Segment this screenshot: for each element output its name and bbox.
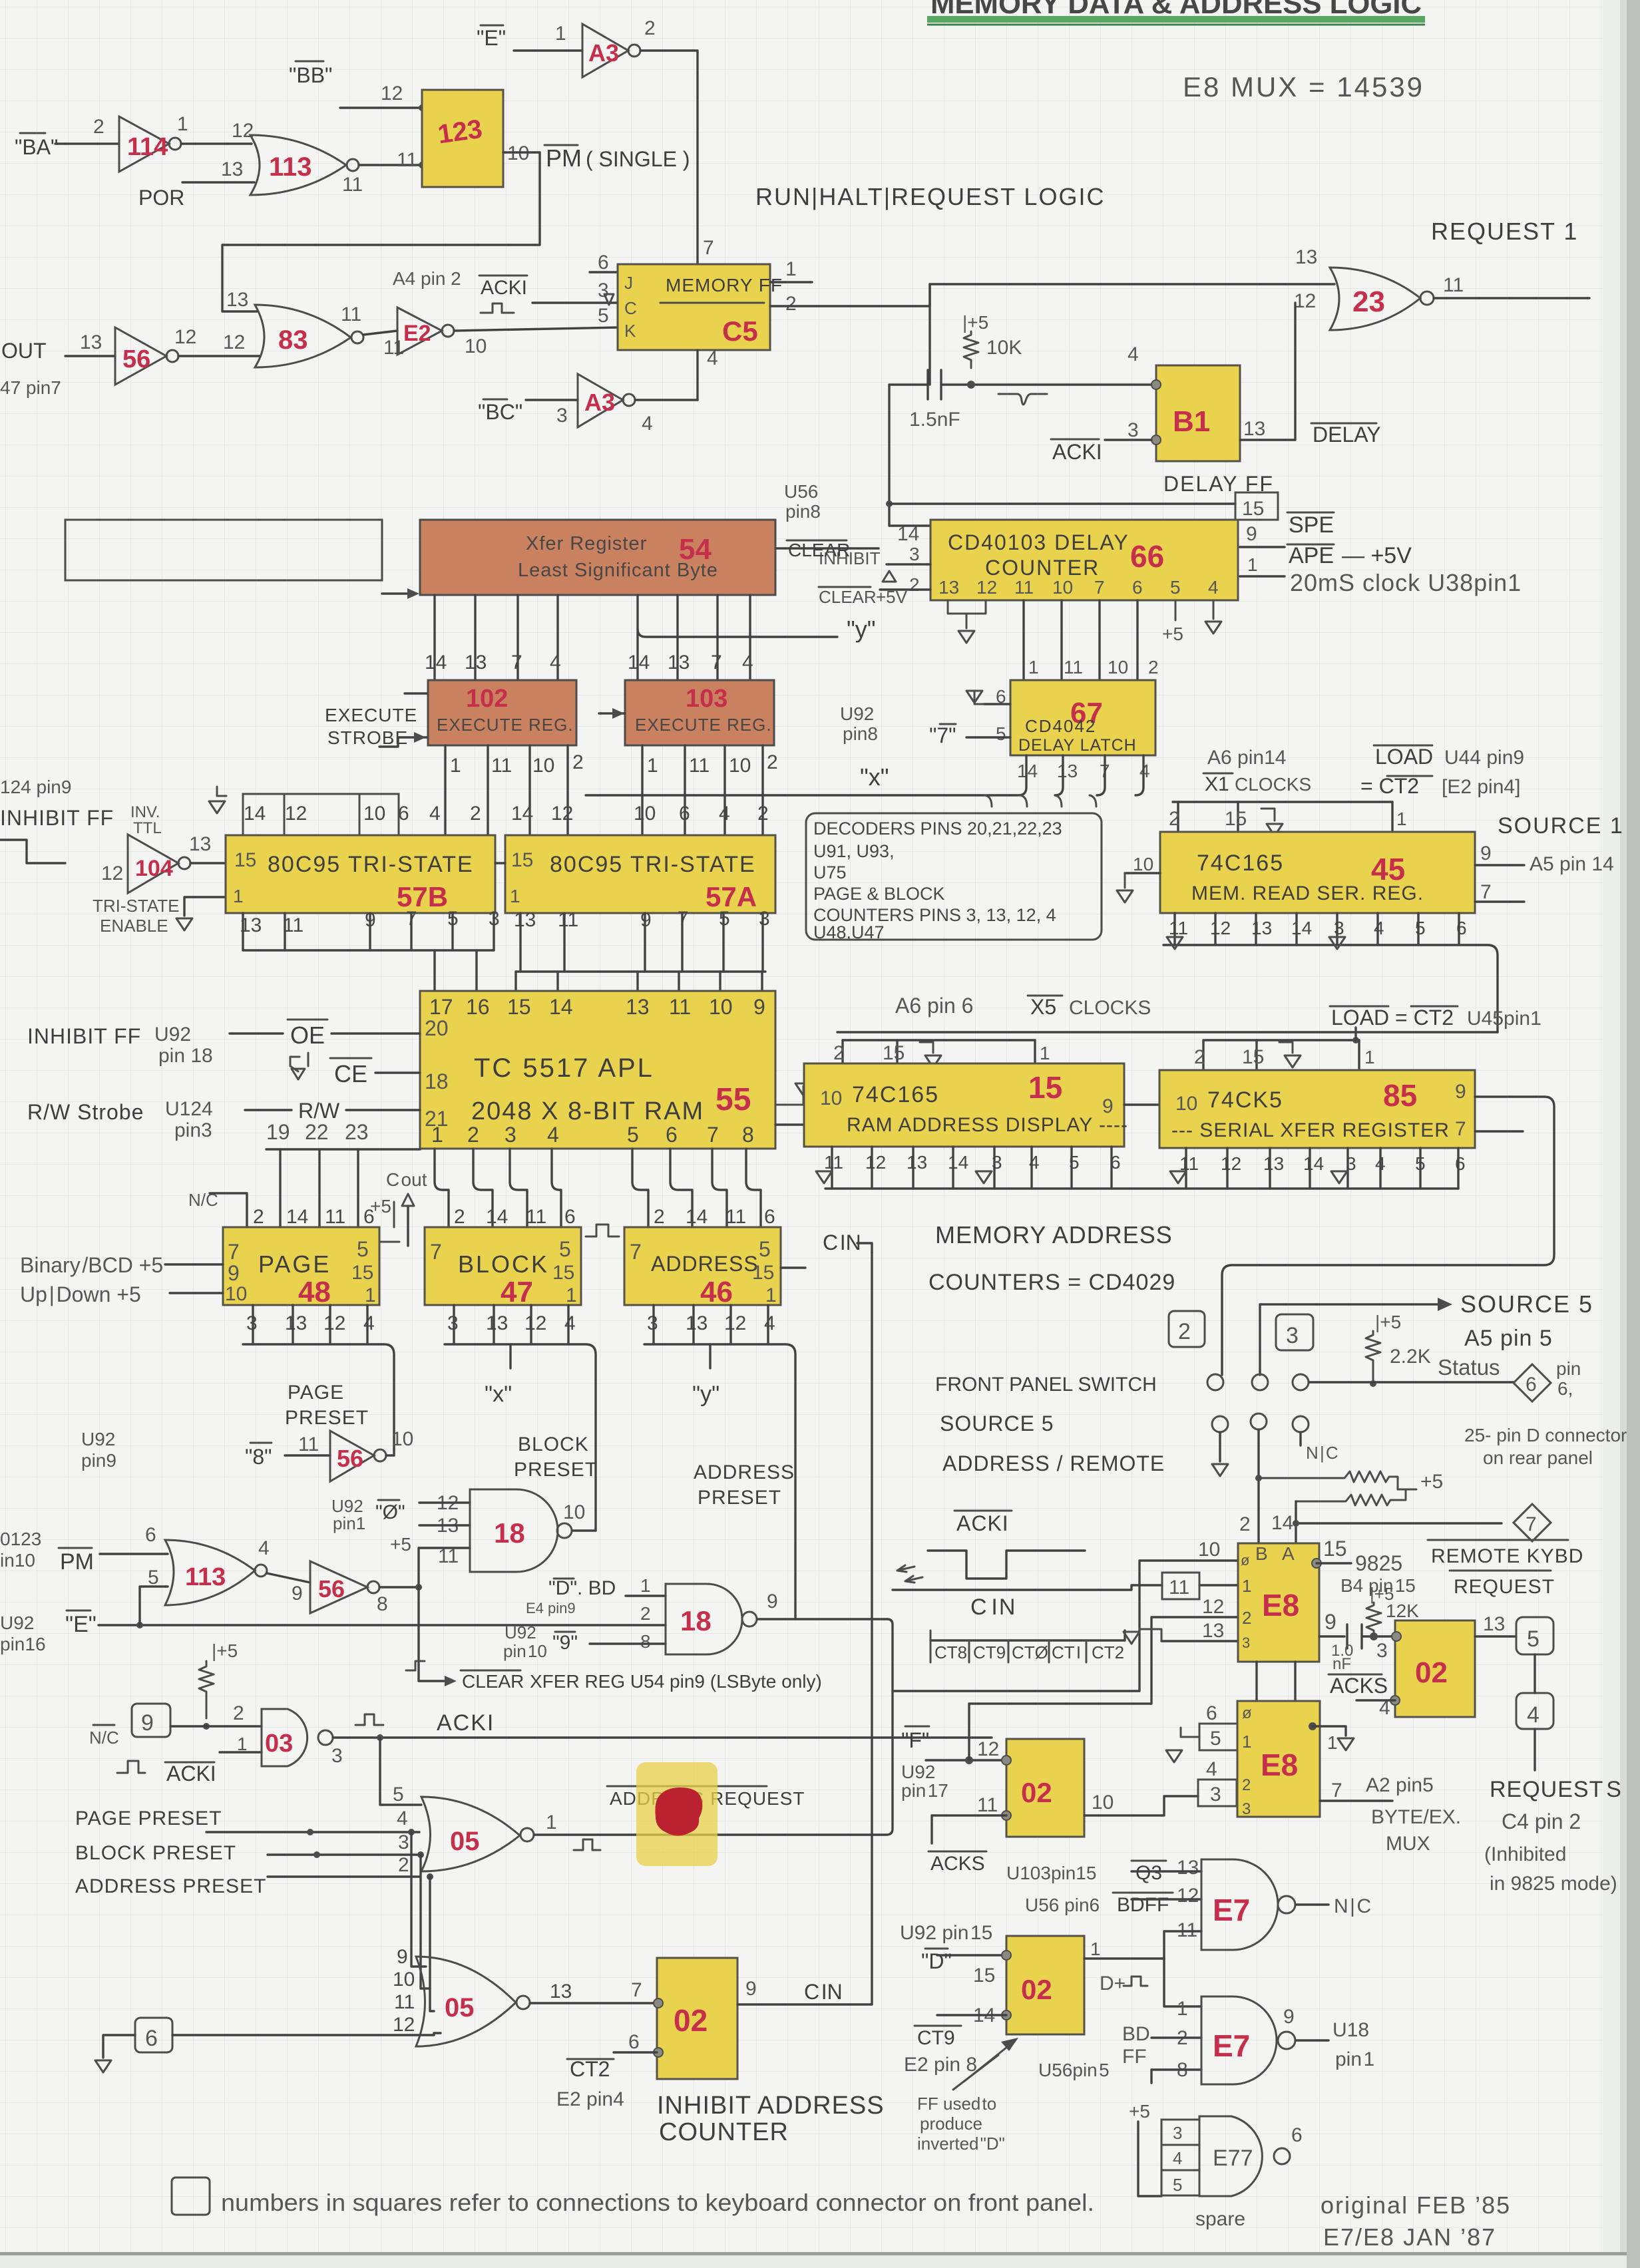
wire 83 to E2 [363, 331, 397, 335]
svg-text:10: 10 [225, 1283, 247, 1305]
svg-text:104: 104 [135, 856, 173, 881]
svg-text:15: 15 [883, 1042, 905, 1064]
svg-text:ø: ø [1242, 1704, 1252, 1722]
node U92 pin15 "D" [900, 1922, 995, 1986]
svg-text:"x": "x" [485, 1382, 512, 1407]
svg-text:1: 1 [1040, 1043, 1050, 1063]
svg-text:10: 10 [1198, 1539, 1220, 1561]
svg-text:11: 11 [725, 1206, 746, 1228]
svg-text:6: 6 [764, 1206, 775, 1228]
label original dates [1321, 2191, 1511, 2251]
wire to diamond 7 [1296, 1522, 1502, 1524]
svg-text:13: 13 [907, 1152, 927, 1173]
svg-text:in10: in10 [0, 1550, 35, 1571]
keyboard square 5 [1516, 1617, 1553, 1654]
svg-text:02: 02 [1415, 1656, 1448, 1689]
svg-text:11: 11 [824, 1152, 843, 1173]
svg-text:6: 6 [1132, 577, 1143, 598]
svg-text:C IN: C IN [970, 1595, 1016, 1620]
wires 66 to 67 [1022, 600, 1024, 680]
svg-text:U92: U92 [840, 703, 874, 724]
svg-text:45: 45 [1371, 852, 1405, 886]
resistor 10K +5 [962, 312, 1022, 368]
svg-text:ACKI: ACKI [1052, 440, 1102, 464]
register 45 74C165 [1160, 832, 1475, 913]
top pin labels PAGE [253, 1206, 375, 1228]
svg-text:RAM ADDRESS DISPLAY ----: RAM ADDRESS DISPLAY ---- [847, 1114, 1128, 1136]
svg-text:RUN|HALT|REQUEST LOGIC: RUN|HALT|REQUEST LOGIC [755, 183, 1105, 210]
svg-text:4: 4 [363, 1312, 375, 1334]
svg-text:102: 102 [466, 685, 508, 713]
svg-text:U92: U92 [81, 1429, 115, 1449]
svg-text:= CT2: = CT2 [1395, 1006, 1454, 1030]
svg-text:2: 2 [833, 1042, 845, 1064]
wire PM loop down to gate 83 [222, 152, 540, 311]
wire [65, 355, 115, 357]
svg-text:1: 1 [365, 1284, 376, 1306]
svg-text:5: 5 [1210, 1728, 1221, 1750]
svg-text:original FEB ’85: original FEB ’85 [1321, 2191, 1511, 2219]
svg-text:C out: C out [386, 1169, 427, 1190]
svg-text:13: 13 [1263, 1153, 1284, 1174]
svg-text:= CT2: = CT2 [1360, 774, 1419, 798]
wire 02 mid out to E8#2 [1084, 1796, 1198, 1815]
wire 85 pin9 big right loop [1222, 1097, 1554, 1375]
ground under circle1 [1219, 1432, 1221, 1461]
svg-text:54: 54 [679, 533, 712, 566]
mux E8 first [1238, 1543, 1319, 1662]
svg-text:13: 13 [626, 995, 650, 1019]
svg-text:CLOCKS: CLOCKS [1235, 774, 1311, 795]
svg-text:"D". BD: "D". BD [548, 1577, 616, 1599]
svg-text:ACKI: ACKI [956, 1511, 1009, 1535]
resistor 12K [1366, 1584, 1419, 1662]
svg-text:pin 1: pin 1 [1335, 2048, 1374, 2070]
svg-text:E2 pin 8: E2 pin 8 [904, 2054, 977, 2076]
svg-text:ACKI: ACKI [437, 1710, 495, 1736]
highlighter blob [636, 1762, 717, 1866]
svg-text:3: 3 [1173, 2123, 1182, 2143]
svg-text:46: 46 [700, 1276, 733, 1308]
svg-text:U56pin 5: U56pin 5 [1038, 2060, 1110, 2080]
svg-text:4: 4 [1206, 1758, 1217, 1780]
svg-text:10: 10 [532, 755, 554, 777]
svg-text:13: 13 [80, 331, 102, 353]
label 25-pin D connector [1464, 1425, 1627, 1468]
svg-text:Xfer Register: Xfer Register [526, 533, 647, 554]
svg-text:10: 10 [1092, 1792, 1114, 1813]
svg-text:1: 1 [546, 1811, 557, 1833]
svg-text:10: 10 [1133, 854, 1153, 874]
nand gate 03 [262, 1709, 343, 1767]
svg-text:6: 6 [1206, 1702, 1217, 1724]
svg-text:C5: C5 [722, 315, 758, 347]
svg-text:66: 66 [1130, 539, 1164, 574]
wire J stub [590, 271, 618, 273]
svg-text:6: 6 [564, 1206, 576, 1228]
svg-text:4: 4 [1208, 577, 1219, 598]
wire C5 pin1 stub [770, 281, 812, 283]
node TRI-STATE ENABLE [93, 896, 226, 936]
svg-text:|+5: |+5 [962, 312, 988, 333]
svg-text:EXECUTE: EXECUTE [325, 705, 417, 725]
bus rectangle above 57B [209, 787, 399, 835]
svg-text:9: 9 [753, 995, 765, 1019]
svg-text:47: 47 [501, 1276, 533, 1308]
wire 02 to square5 [1475, 1635, 1516, 1637]
svg-text:15: 15 [1242, 498, 1264, 520]
svg-text:6: 6 [1455, 1153, 1466, 1174]
svg-text:ACKI: ACKI [166, 1762, 216, 1786]
svg-text:9: 9 [1283, 2006, 1295, 2028]
svg-text:10: 10 [729, 755, 751, 777]
svg-text:INHIBIT ADDRESS: INHIBIT ADDRESS [657, 2092, 885, 2120]
svg-text:2: 2 [467, 1123, 479, 1147]
node "7bar" u92 pin8 [840, 703, 956, 747]
node SPE [1287, 512, 1334, 538]
node DELAY [1311, 423, 1381, 447]
svg-text:23: 23 [1352, 285, 1385, 318]
svg-text:CLEAR: CLEAR [788, 540, 850, 560]
svg-text:A: A [1282, 1543, 1295, 1564]
svg-text:5: 5 [627, 1123, 639, 1147]
svg-text:3: 3 [331, 1745, 343, 1767]
wire POR input [138, 158, 254, 210]
svg-text:CD40103 DELAY: CD40103 DELAY [948, 530, 1129, 554]
svg-text:2: 2 [233, 1702, 244, 1724]
svg-text:LOAD: LOAD [1331, 1006, 1389, 1030]
svg-text:Status: Status [1438, 1355, 1500, 1380]
svg-text:13: 13 [686, 1312, 708, 1334]
svg-text:123: 123 [436, 114, 484, 150]
mux E8 second [1237, 1701, 1320, 1818]
wire C input [532, 301, 618, 303]
svg-text:7: 7 [1480, 881, 1492, 903]
buffer 02 right [1379, 1620, 1475, 1719]
buffer 02 inhibit address counter [628, 1958, 757, 2079]
svg-text:11: 11 [325, 1206, 345, 1228]
label INHIBIT ADDRESS COUNTER [657, 2092, 885, 2146]
svg-text:2: 2 [572, 751, 584, 773]
svg-text:7: 7 [631, 1979, 642, 2001]
svg-text:"7": "7" [929, 723, 956, 747]
svg-text:PAGE PRESET: PAGE PRESET [75, 1807, 222, 1829]
wire circle2 down to E8 B [1257, 1429, 1259, 1543]
svg-text:9: 9 [1455, 1081, 1466, 1103]
svg-text:80C95 TRI-STATE: 80C95 TRI-STATE [550, 852, 756, 877]
svg-text:spare: spare [1195, 2208, 1245, 2230]
svg-text:pin9: pin9 [81, 1450, 116, 1471]
svg-text:13: 13 [285, 1312, 307, 1334]
switch circles row1 [1207, 1374, 1223, 1390]
node CT9 E2 pin8 [904, 2026, 977, 2076]
pin 15 notch on 66 [1235, 492, 1278, 520]
svg-text:CT9: CT9 [973, 1642, 1006, 1662]
svg-text:9: 9 [292, 1583, 303, 1605]
svg-text:PM: PM [546, 144, 582, 172]
svg-text:N | C: N | C [1334, 1895, 1371, 1917]
svg-text:6: 6 [679, 803, 690, 825]
svg-text:C IN: C IN [804, 1980, 843, 2004]
svg-text:56: 56 [122, 345, 150, 373]
svg-text:C4 pin 2: C4 pin 2 [1502, 1809, 1581, 1833]
svg-text:14: 14 [897, 523, 919, 545]
svg-text:10: 10 [391, 1428, 413, 1450]
svg-text:J: J [624, 273, 633, 293]
svg-text:4: 4 [547, 1123, 559, 1147]
svg-text:14: 14 [244, 803, 266, 825]
svg-text:LOAD: LOAD [1375, 745, 1433, 769]
svg-text:BLOCK PRESET: BLOCK PRESET [75, 1842, 236, 1864]
svg-text:6: 6 [628, 2031, 640, 2053]
svg-text:15: 15 [507, 995, 531, 1019]
svg-text:Q3: Q3 [1135, 1862, 1162, 1884]
counter 46 ADDRESS [624, 1227, 781, 1308]
node "D".BD [526, 1575, 651, 1616]
svg-text:13: 13 [221, 158, 243, 180]
svg-text:7: 7 [630, 1240, 642, 1264]
svg-text:5: 5 [1173, 2175, 1182, 2195]
svg-text:12: 12 [323, 1312, 345, 1334]
svg-text:CT2: CT2 [570, 2057, 610, 2081]
svg-text:PAGE: PAGE [258, 1250, 331, 1278]
node U92 pin16 E [0, 1610, 97, 1654]
svg-text:CT2: CT2 [1092, 1642, 1124, 1662]
svg-text:2: 2 [1178, 1319, 1191, 1344]
node COUT arrow [386, 1169, 427, 1246]
svg-text:12: 12 [524, 1312, 546, 1334]
svg-text:5: 5 [1527, 1626, 1539, 1652]
svg-text:74CK5: 74CK5 [1207, 1087, 1283, 1113]
svg-text:57B: 57B [397, 881, 448, 912]
annotation box DECODERS [806, 813, 1102, 942]
svg-text:1: 1 [1090, 1939, 1101, 1959]
wire CIN long vertical [871, 1252, 873, 2004]
svg-text:DECODERS PINS 20,21,22,23: DECODERS PINS 20,21,22,23 [813, 819, 1062, 839]
svg-text:3: 3 [1127, 419, 1139, 441]
svg-text:U44 pin9: U44 pin9 [1444, 747, 1524, 769]
svg-text:D+: D+ [1100, 1973, 1126, 1994]
svg-text:REQUEST: REQUEST [1454, 1576, 1555, 1598]
svg-text:114: 114 [127, 133, 168, 161]
label ADDRESS PRESET [694, 1461, 795, 1509]
node PM (SINGLE) [503, 144, 690, 172]
svg-text:74C165: 74C165 [852, 1082, 939, 1107]
svg-text:CLEAR: CLEAR [462, 1671, 524, 1692]
svg-text:20: 20 [425, 1016, 449, 1040]
svg-text:113: 113 [185, 1563, 226, 1591]
ram right bracket ground [775, 1083, 811, 1105]
node ACKS right [1329, 1674, 1388, 1698]
svg-text:+5: +5 [1420, 1471, 1443, 1493]
register 85 SERIAL XFER REGISTER [1159, 1070, 1475, 1148]
inverter 56 third [310, 1561, 388, 1615]
nor gate 05 first [421, 1797, 557, 1871]
keyboard square 6 [95, 2018, 441, 2072]
svg-text:124 pin9: 124 pin9 [0, 777, 71, 797]
svg-text:1: 1 [640, 1575, 651, 1596]
svg-text:13: 13 [1202, 1620, 1224, 1642]
svg-text:5: 5 [759, 1237, 771, 1261]
svg-text:11: 11 [491, 755, 512, 777]
node BA [15, 116, 104, 159]
svg-text:8: 8 [742, 1123, 754, 1147]
svg-text:12: 12 [101, 862, 123, 884]
svg-text:12: 12 [285, 803, 307, 825]
node U103pin15 Q3 / U56 pin6 BDFF [1006, 1857, 1199, 1884]
wire E long row [99, 1624, 666, 1626]
svg-text:05: 05 [450, 1827, 480, 1856]
wire A3 out down to C5 pin7 [640, 51, 698, 264]
svg-text:COUNTER: COUNTER [985, 556, 1100, 580]
svg-text:12: 12 [551, 803, 573, 825]
node Binary/BCD +5 [20, 1253, 223, 1277]
svg-text:13: 13 [1177, 1857, 1199, 1879]
svg-text:9825: 9825 [1355, 1551, 1402, 1575]
svg-text:4: 4 [1139, 761, 1150, 781]
inverter 104 [101, 803, 211, 893]
15 top stubs [833, 1040, 1050, 1067]
glitch pulse symbol [998, 394, 1047, 405]
svg-text:1: 1 [1177, 1998, 1188, 2020]
counter 66 CD40103 [930, 520, 1238, 600]
buffer 57B 80C95 [226, 835, 495, 913]
pulse symbol between BLOCK/ADDRESS [586, 1225, 619, 1236]
nor gate 23 [1294, 246, 1464, 330]
svg-text:11: 11 [1443, 274, 1464, 296]
svg-text:11: 11 [342, 174, 363, 196]
svg-text:12: 12 [174, 326, 196, 348]
svg-text:DELAY: DELAY [1313, 423, 1381, 447]
arrows under 45 pins 11,3 [1167, 937, 1183, 949]
svg-text:pin8: pin8 [843, 723, 878, 744]
node CE [290, 1053, 420, 1087]
svg-text:6: 6 [1291, 2124, 1303, 2146]
svg-text:2: 2 [757, 803, 769, 825]
svg-text:OUT: OUT [1, 339, 47, 363]
node A6 pin6 X5 CLOCKS [895, 994, 1151, 1019]
svg-text:INHIBIT FF: INHIBIT FF [27, 1024, 141, 1048]
svg-text:1: 1 [1327, 1732, 1338, 1753]
svg-text:14: 14 [948, 1152, 968, 1173]
svg-text:C: C [624, 298, 637, 318]
svg-text:3: 3 [909, 544, 920, 564]
nor gate 113 second [165, 1537, 303, 1605]
scanner edge right [1627, 0, 1640, 2268]
PAGE bottom pins + bus [246, 1312, 375, 1334]
svg-text:ADDRESS PRESET: ADDRESS PRESET [75, 1875, 266, 1897]
svg-text:SOURCE 5: SOURCE 5 [940, 1412, 1054, 1435]
wires E8#1 to E8#2 [1255, 1662, 1257, 1701]
svg-text:in 9825 mode): in 9825 mode) [1490, 1873, 1617, 1895]
svg-text:13: 13 [1295, 246, 1317, 268]
label REMOTE KYBD REQUEST [1428, 1540, 1583, 1598]
svg-text:ENABLE: ENABLE [100, 916, 168, 936]
svg-text:14: 14 [1271, 1512, 1293, 1534]
wire [526, 399, 578, 401]
svg-text:+5V: +5V [876, 587, 908, 607]
svg-text:+5: +5 [390, 1534, 411, 1555]
svg-text:1: 1 [555, 23, 566, 45]
node X1 CLOCKS / LOAD CT2 [1203, 747, 1311, 795]
svg-text:13: 13 [1243, 418, 1265, 440]
register 103 EXECUTE REG [625, 680, 774, 745]
svg-text:"BC": "BC" [478, 400, 522, 424]
svg-text:BD: BD [1122, 2023, 1150, 2045]
45 top bus [1169, 802, 1407, 836]
svg-text:5: 5 [598, 305, 609, 327]
svg-text:15: 15 [511, 849, 533, 871]
svg-text:CT9: CT9 [917, 2027, 955, 2049]
diamond 6 [1514, 1358, 1581, 1402]
svg-text:pin8: pin8 [785, 501, 821, 522]
svg-text:10: 10 [563, 1501, 585, 1523]
svg-text:11: 11 [341, 303, 361, 325]
node "0bar" u92 pin1 [331, 1492, 459, 1533]
svg-text:pin 18: pin 18 [158, 1045, 213, 1067]
node BB [289, 61, 332, 87]
svg-text:A6 pin 6: A6 pin 6 [895, 994, 973, 1018]
label BLOCK PRESET [514, 1433, 598, 1481]
svg-text:[E2 pin4]: [E2 pin4] [1442, 776, 1520, 798]
nand gate 18 first [470, 1489, 585, 1572]
svg-text:7: 7 [711, 652, 722, 673]
node U92 pin10 "9bar" [503, 1622, 651, 1661]
node R/W strobe [27, 1098, 420, 1141]
BLOCK bottom pins + bus [447, 1312, 576, 1334]
svg-text:22: 22 [305, 1120, 329, 1144]
inverter 114 [119, 113, 188, 172]
svg-text:U92: U92 [505, 1622, 536, 1642]
svg-text:B1: B1 [1173, 405, 1210, 438]
svg-text:1: 1 [785, 258, 797, 280]
keyboard square 2 [1169, 1311, 1205, 1347]
svg-text:10K: 10K [986, 337, 1022, 359]
svg-text:2: 2 [1242, 1776, 1251, 1794]
svg-text:"E": "E" [477, 26, 506, 50]
svg-text:PRESET: PRESET [698, 1487, 781, 1509]
svg-text:18: 18 [680, 1605, 712, 1636]
wire [178, 355, 260, 357]
svg-text:--- SERIAL XFER REGISTER: --- SERIAL XFER REGISTER [1171, 1119, 1450, 1141]
svg-text:12: 12 [1294, 290, 1316, 312]
svg-text:23: 23 [345, 1120, 369, 1144]
wire RC node vertical [928, 284, 930, 385]
svg-text:CD4042: CD4042 [1025, 716, 1096, 736]
svg-text:11: 11 [298, 1433, 319, 1455]
svg-text:3: 3 [1242, 1634, 1250, 1651]
wire into pin12/13 [969, 1617, 1238, 1704]
svg-text:2: 2 [470, 803, 481, 825]
svg-text:11: 11 [1169, 918, 1188, 938]
svg-text:2: 2 [1194, 1046, 1205, 1068]
svg-text:"F": "F" [901, 1728, 929, 1752]
svg-text:15: 15 [1242, 1046, 1264, 1068]
svg-text:produce: produce [920, 2114, 982, 2134]
svg-text:13: 13 [486, 1312, 508, 1334]
svg-text:+5: +5 [1129, 2101, 1150, 2122]
svg-text:9: 9 [141, 1710, 154, 1736]
svg-text:8: 8 [640, 1631, 651, 1652]
svg-text:XFER REG U54 pin9 (LSByte onl: XFER REG U54 pin9 (LSByte only) [530, 1671, 822, 1692]
svg-text:18: 18 [425, 1069, 449, 1093]
svg-text:CT8: CT8 [934, 1642, 967, 1662]
wires 57B bottom to RAM [243, 913, 494, 991]
svg-text:6: 6 [666, 1123, 678, 1147]
svg-text:BLOCK: BLOCK [458, 1250, 549, 1278]
svg-text:A5 pin 14: A5 pin 14 [1530, 853, 1614, 875]
svg-text:9: 9 [397, 1946, 408, 1968]
